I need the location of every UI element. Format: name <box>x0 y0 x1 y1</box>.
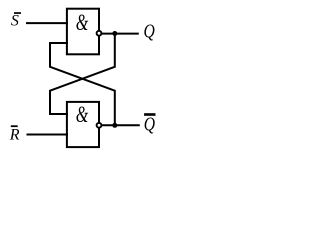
svg-text:R: R <box>9 127 20 144</box>
svg-text:Q: Q <box>144 20 155 42</box>
svg-text:&: & <box>76 10 89 35</box>
svg-text:Q: Q <box>144 113 155 135</box>
svg-text:S: S <box>11 12 19 29</box>
svg-text:&: & <box>76 103 89 128</box>
